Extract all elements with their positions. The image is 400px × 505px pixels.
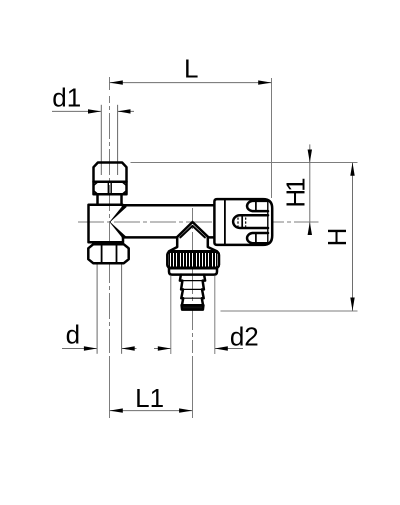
svg-text:d1: d1 [52,82,81,112]
svg-text:H: H [322,228,352,247]
svg-text:L: L [184,54,198,84]
svg-text:L1: L1 [135,383,164,413]
svg-text:d2: d2 [230,321,259,351]
svg-text:H1: H1 [280,178,310,208]
svg-text:d: d [66,319,80,349]
